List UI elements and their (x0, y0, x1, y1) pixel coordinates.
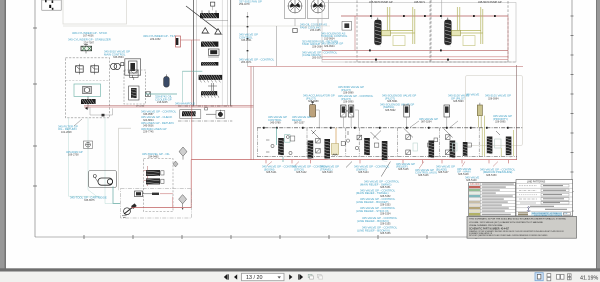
section separator lines (258, 128, 480, 157)
svg-text:345-8975: 345-8975 (84, 199, 95, 202)
frame tick marks (33, 16, 574, 239)
svg-text:169-2758: 169-2758 (68, 154, 79, 157)
svg-text:328-5146: 328-5146 (418, 174, 429, 177)
svg-text:328-5992: 328-5992 (385, 109, 396, 112)
valve spool section 4 (355, 132, 379, 156)
label pilot valve L (380, 94, 416, 112)
stand dash-dot bottom (178, 120, 232, 122)
solenoid valve SV2 (91, 64, 99, 75)
valve bank enclosure gray left edge (253, 67, 255, 161)
bank lower red drops (266, 160, 509, 164)
svg-text:328-5142: 328-5142 (296, 171, 307, 174)
svg-text:328-5995: 328-5995 (495, 121, 506, 124)
svg-text:334-9465: 334-9465 (148, 155, 159, 158)
accumulator A1 tan (310, 101, 316, 117)
bottom gray band under page (0, 269, 600, 272)
svg-text:328-5990: 328-5990 (343, 101, 354, 104)
scrolling mode icon (568, 274, 572, 280)
label bank 2 (292, 165, 328, 174)
label boom priority (493, 114, 512, 123)
label reservoir hyd tank (302, 39, 338, 48)
control valve stand rails (194, 0, 231, 106)
main pump enclosure outer (322, 3, 516, 63)
wire suction line (87, 104, 89, 109)
gray drop to grease cluster (119, 128, 131, 190)
hand pump diagonal (122, 203, 137, 217)
pump1 inlet gray riser (371, 0, 373, 19)
label travel alarm (419, 117, 438, 124)
svg-text:345-MANIFOLD: 345-MANIFOLD (175, 102, 195, 106)
svg-text:13 / 20: 13 / 20 (246, 275, 263, 281)
red return dual lines (322, 57, 508, 60)
slow return check (146, 92, 151, 97)
tank inner teal box (74, 84, 101, 96)
teal line down from tank (69, 118, 100, 196)
title block (467, 216, 577, 238)
svg-text:345-0000: 345-0000 (470, 184, 480, 186)
hydraulic fan motor M2 (308, 0, 329, 19)
sheet frame left border (34, 0, 36, 237)
last page button (298, 274, 299, 279)
dark spool at frame left (176, 38, 179, 45)
label accumulator top (303, 94, 335, 103)
svg-text:229-1052: 229-1052 (150, 38, 161, 41)
svg-text:087-5264: 087-5264 (421, 120, 432, 123)
next page button (289, 274, 292, 279)
valve bank bottom dash-dot rail (257, 156, 517, 158)
label pilot filter left (239, 57, 275, 64)
salmon return line long (84, 106, 254, 108)
proportional solenoid pump1 (342, 22, 352, 31)
valve bank enclosure red left edge (250, 67, 252, 161)
next view icon (disabled) (317, 274, 322, 279)
svg-text:312-9934: 312-9934 (324, 38, 335, 41)
svg-text:102-2828: 102-2828 (61, 131, 72, 134)
first page button (224, 274, 227, 279)
pump2 inlet gray riser (441, 0, 443, 19)
small diamond filter (173, 161, 178, 167)
piston pump dashed box 2 (431, 0, 508, 62)
svg-text:328-2684: 328-2684 (312, 46, 323, 49)
svg-text:283-9171: 283-9171 (241, 61, 252, 64)
svg-text:329-9944: 329-9944 (324, 45, 335, 48)
leader boom label (267, 162, 272, 166)
label pilot valve K (338, 85, 374, 103)
svg-text:345-5072 PUMP GP: 345-5072 PUMP GP (478, 0, 502, 4)
legend text lines (482, 184, 514, 215)
teal riser left of stand (181, 71, 183, 102)
label bucket cylinder gp (68, 31, 111, 44)
label swivel gp (142, 152, 170, 159)
leader to swing label (346, 162, 352, 168)
oil cooler bypass accumulator (164, 74, 170, 87)
label bank 4 swing (354, 165, 390, 174)
accumulator charge valve hatched (201, 62, 218, 66)
red riser pump1 (354, 16, 356, 50)
svg-text:328-5150: 328-5150 (486, 174, 497, 177)
dashed inner partition (66, 80, 110, 82)
red branch into swivel (160, 194, 173, 208)
hydraulic fan motor M1 (285, 0, 306, 19)
toolbar separator dark band (0, 268, 600, 271)
olive lines right bank section (482, 116, 513, 157)
label bank 10 (480, 167, 516, 176)
olive control loop pump2 (457, 7, 483, 44)
svg-text:41.19%: 41.19% (580, 275, 598, 281)
leader mp label2 (493, 162, 498, 167)
red pilot feed box (176, 36, 181, 47)
stand dash-dot shelf (178, 105, 232, 107)
pilot filter box lower (180, 110, 201, 119)
swivel valve row 2 (146, 178, 164, 184)
small fitting on return (102, 114, 105, 117)
valve bank top dash-dot rail (257, 127, 523, 129)
tick marks on pump lines (369, 15, 496, 61)
filter F2 with bypass (129, 86, 139, 100)
valve spool section 5 (373, 131, 387, 162)
main pump block dark (81, 97, 96, 105)
servo piston pump2 (445, 18, 452, 47)
red riser pump2 (507, 16, 509, 60)
svg-text:WITH KEY QUARTER DETAILS PILLA: WITH KEY QUARTER DETAILS PILLAR OTHER SH… (469, 234, 548, 237)
faint right manifold outline (466, 76, 523, 146)
svg-text:328-5147: 328-5147 (438, 171, 449, 174)
valve bank red return rail (191, 159, 517, 161)
pilot pump P1 (111, 63, 124, 70)
label case drain filter (302, 50, 338, 59)
svg-text:345-0789: 345-0789 (270, 122, 281, 125)
pilot solenoid pair K1 (341, 105, 359, 128)
leader line filter label (74, 119, 82, 126)
label fan lines top (239, 0, 262, 6)
check valve CV2 (215, 29, 221, 34)
swivel valve row 1 (146, 170, 164, 176)
label pilot oil manifold (104, 50, 130, 59)
pump2 yellow actuator box (463, 36, 475, 46)
solenoid coil S1 (211, 2, 215, 6)
gray return loop (90, 107, 113, 115)
lower hatched manifold block (201, 91, 219, 98)
two page mode icon (557, 274, 565, 279)
rail connection dots (263, 127, 509, 129)
svg-text:283-9179: 283-9179 (312, 57, 323, 60)
red swivel feed loop (144, 166, 151, 186)
wire riser to fan circuit (276, 26, 278, 66)
red stand drain vertical (191, 40, 193, 160)
stand tick column (247, 16, 249, 51)
valve bank enclosure top (248, 66, 524, 68)
leader to center list (381, 162, 390, 177)
wire fan motor drains (295, 19, 318, 29)
dashed pilot manifold box left (66, 58, 110, 118)
olive regulator box pump2 (452, 30, 461, 35)
svg-text:328-5993: 328-5993 (453, 100, 464, 103)
svg-text:345-9564: 345-9564 (113, 56, 124, 59)
label pilot valve M (448, 94, 469, 103)
filter F1 (130, 70, 139, 80)
label oil filter gp (58, 124, 78, 133)
wire riser right of stand (247, 12, 249, 67)
teal drop into bank (276, 128, 278, 145)
label bank 8 (457, 167, 471, 176)
pilot pump circle lower (205, 108, 225, 119)
pressure reducing valve PRV (208, 49, 219, 57)
label hydraulic oil cooler (155, 95, 173, 104)
red return loop bottom-left (131, 160, 191, 208)
label np sensor (321, 41, 343, 48)
center hyperlink list (356, 180, 400, 235)
servo piston pump1 (375, 18, 382, 47)
svg-text:345-5070 PUMP GP: 345-5070 PUMP GP (369, 0, 393, 4)
spring center pair (208, 83, 217, 91)
svg-text:259-4078: 259-4078 (239, 3, 250, 6)
legend color table (469, 183, 516, 216)
check valve CV1 (202, 28, 208, 33)
svg-text:233-4185: 233-4185 (310, 29, 321, 32)
sheet frame bottom border (35, 236, 572, 238)
relief valve block R1 (125, 59, 141, 78)
orange pilot riser in bank (335, 128, 337, 144)
arrow suction (85, 107, 87, 110)
label pilot valve N (485, 94, 511, 101)
swivel dashed box (144, 159, 174, 212)
case drain dashed box (124, 70, 146, 104)
teal line 2 down (88, 118, 100, 199)
label solenoid valve mid (268, 115, 287, 124)
label test coupler (66, 150, 83, 157)
red supply line lower (322, 49, 508, 51)
olive regulator box pump1 (382, 30, 391, 35)
line patterns table (516, 180, 573, 218)
dark red return line (84, 104, 254, 106)
valve spool section 6 (404, 129, 438, 159)
wire fan supply horizontal (63, 25, 330, 27)
olive pilot cylinder right (477, 103, 482, 128)
dash-dot utility box (121, 189, 192, 219)
sheet frame right border (571, 0, 573, 237)
valve spool section 2 (286, 136, 313, 159)
teal feed into stand (182, 70, 202, 72)
solenoid valve SV1 (76, 64, 84, 75)
valve spool section 7 (444, 129, 472, 159)
anchor glyph (527, 207, 530, 212)
leader stick label (295, 162, 299, 166)
label oil cooler lines (300, 23, 327, 32)
svg-text:345-VALVE: 345-VALVE (465, 92, 479, 96)
svg-text:THIS SCHEMATIC IS FOR THE 313D: THIS SCHEMATIC IS FOR THE 313D2 AND 315D… (469, 218, 566, 221)
certification blue text (531, 212, 568, 217)
grease cartridge box (89, 171, 117, 188)
leader mp label (462, 162, 465, 167)
svg-text:328-5144: 328-5144 (358, 171, 369, 174)
wire coil drop (202, 6, 228, 34)
left gray margin (0, 0, 6, 269)
quick coupler valve (135, 191, 160, 197)
label line relief valve (143, 34, 176, 41)
svg-text:VISUAL NUMBER: PROVISIONAL: VISUAL NUMBER: PROVISIONAL (469, 224, 504, 227)
label bank 7 (436, 165, 455, 174)
svg-text:345-2041: 345-2041 (241, 39, 252, 42)
leader to valve label r2 (450, 121, 458, 128)
faint junction box outline (63, 0, 127, 24)
label bank 5 (396, 162, 415, 171)
valve section upper (hatched) (200, 10, 219, 18)
pilot solenoid M1 (444, 105, 450, 128)
right gray margin (596, 0, 600, 269)
svg-text:087-5257: 087-5257 (294, 122, 305, 125)
olive control loop pump1 (387, 7, 415, 44)
toolbar background (0, 272, 600, 282)
teal line 3 down (105, 118, 113, 204)
leader to valve label r1 (410, 121, 419, 128)
pilot manifold wide hatched block (199, 75, 223, 82)
wire red pilot feed (181, 39, 201, 41)
page number box (242, 273, 285, 280)
label bank 6 (415, 168, 437, 177)
pilot solenoid L1 (404, 105, 410, 128)
piston pump dashed box 1 (357, 0, 430, 62)
pilot line diagonal (186, 6, 218, 30)
svg-text:328-5141: 328-5141 (266, 171, 277, 174)
wire accumulator drop (316, 110, 320, 129)
svg-text:328-5154: 328-5154 (380, 212, 391, 215)
label bank 3 (320, 165, 339, 174)
labels under valve bank row (262, 165, 298, 174)
teal pilot return line (145, 93, 177, 95)
svg-text:SCHEMATIC PART NUMBER: 45-4457: SCHEMATIC PART NUMBER: 45-4457 (469, 228, 510, 231)
svg-text:VOLUME: 13/21 SINGLE (SLT) LOA: VOLUME: 13/21 SINGLE (SLT) LOADER WITH C… (469, 221, 543, 224)
continuous mode icon (547, 274, 551, 281)
teal feed to hand pump (113, 186, 120, 203)
red supply line upper (341, 15, 508, 17)
svg-text:328-5145: 328-5145 (398, 168, 409, 171)
svg-text:328-5149: 328-5149 (466, 179, 477, 182)
label grease gun (70, 196, 107, 203)
svg-text:345-5071: 345-5071 (414, 0, 426, 4)
pump1 yellow actuator box (393, 36, 405, 46)
solenoid valve box top-left corner (42, 0, 61, 10)
valve spool section 8 boom (487, 131, 501, 154)
svg-text:328-5143: 328-5143 (322, 171, 333, 174)
filter diamond upper (179, 147, 187, 160)
svg-text:218-8245: 218-8245 (157, 101, 168, 104)
valve spool section 9 (506, 137, 512, 158)
suction strainer (83, 87, 92, 94)
previous view icon (308, 274, 313, 279)
svg-text:229-7745: 229-7745 (143, 130, 154, 133)
label list right of tank (141, 109, 177, 133)
svg-text:274-7087: 274-7087 (84, 41, 95, 44)
label relief valve mid (292, 115, 311, 124)
valve section lower (hatched) (201, 42, 218, 47)
svg-text:2P-1234: 2P-1234 (136, 105, 145, 107)
pressure test coupler box (84, 141, 93, 148)
label pump control left (239, 33, 258, 42)
check valve V1 (81, 43, 92, 53)
valve spool section 3 (311, 130, 350, 160)
svg-text:328-5156: 328-5156 (380, 232, 391, 235)
valve spool section 1 (266, 135, 290, 156)
filter diamond lower (179, 195, 187, 210)
label bank 9 (465, 175, 479, 182)
tee fitting T1 (293, 29, 297, 33)
teal small riser (282, 157, 284, 162)
valve bank enclosure right edge (515, 65, 517, 160)
prev page button (234, 274, 237, 279)
valve spool section 7b (463, 142, 468, 156)
svg-text:LINE PATTERNS: LINE PATTERNS (527, 181, 546, 184)
svg-text:328-5994: 328-5994 (488, 97, 499, 100)
leader aux label (419, 162, 424, 169)
single page mode icon (active) (535, 273, 543, 281)
pump enclosure dashed bottom (345, 61, 516, 63)
